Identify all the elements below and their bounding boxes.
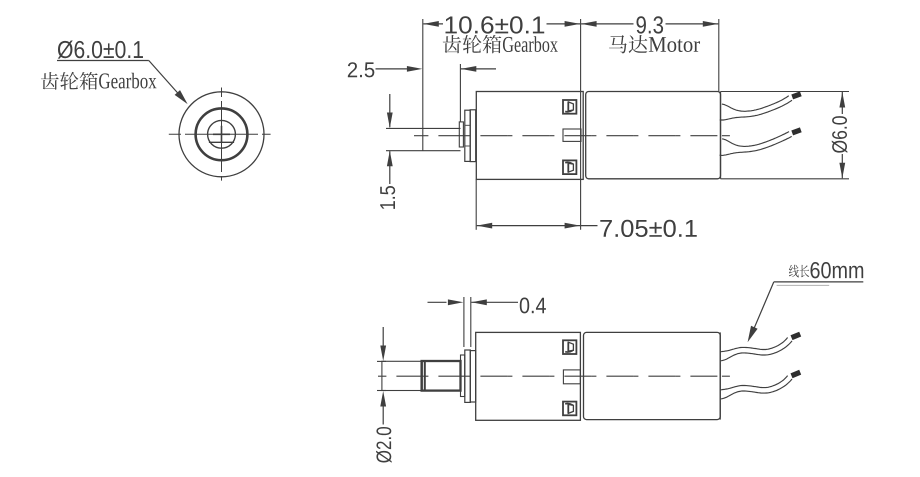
dim 2.5 right arrow tail	[461, 68, 496, 70]
dim dia2 ext lines	[377, 360, 386, 362]
dim text 1.5 rotated	[380, 186, 395, 209]
dim dia6 ext top	[721, 91, 850, 93]
front view label gearbox leader	[57, 60, 149, 62]
label wire length 60mm	[789, 265, 799, 278]
label wire length leader	[774, 281, 864, 283]
dim ext line between gearbox and motor x580.6	[580, 19, 582, 230]
motor body bottom view	[584, 332, 721, 419]
dim text 0.4	[520, 297, 529, 313]
dim 2.5 ext line at collar x460.4	[459, 64, 461, 122]
dim 10.6 line and arrows	[423, 23, 443, 25]
front view center mark cross	[213, 133, 230, 135]
motor right edge redraw bottom view	[719, 332, 721, 419]
top view centerline	[722, 135, 730, 137]
dim 2.5 line left with arrow	[376, 68, 408, 70]
screw symbol top view lower	[563, 160, 576, 174]
dim text 7.05	[600, 220, 612, 237]
bottom shaft threaded section M2	[422, 361, 461, 391]
middle tab between gearbox and motor top view	[563, 129, 581, 141]
motor wire top view lower	[722, 132, 789, 147]
bottom view centerline	[722, 375, 730, 377]
top shaft collar step	[459, 122, 463, 147]
front view centerline horizontal	[169, 133, 271, 135]
washer 2 bottom view	[470, 351, 475, 402]
screw symbol bottom view lower	[563, 402, 576, 416]
dim 10.6 extension line left at shaft tip x423	[422, 19, 424, 151]
dim 1.5 lower line arrow up	[389, 151, 391, 184]
dim 0.4 line arrows	[428, 301, 447, 303]
middle tab bottom view	[563, 370, 580, 384]
gearbox body top view	[476, 92, 583, 180]
dim text 9.3	[636, 16, 645, 33]
motor body top view	[586, 92, 721, 179]
dim 1.5 upper line arrow down	[389, 94, 391, 127]
washer 1 top view	[465, 110, 470, 161]
dim text dia2 rotated	[376, 427, 392, 463]
dim 7.05 line arrows	[477, 225, 580, 227]
front view middle circle	[196, 108, 248, 160]
dim dia6 vertical line arrows	[841, 92, 843, 114]
front view label dia 6.0	[58, 40, 73, 58]
front view inner circle shaft	[208, 120, 236, 148]
top shaft outline	[386, 127, 461, 129]
label motor Chinese	[609, 35, 627, 53]
screw symbol top view upper	[563, 100, 576, 114]
front view label text Chinese Gearbox	[41, 72, 59, 90]
gearbox body bottom view	[476, 332, 581, 420]
bottom shaft smooth section	[382, 361, 422, 390]
label gearbox Chinese top	[443, 35, 461, 53]
front view centerline vertical	[221, 88, 223, 181]
washer 2 top view	[470, 110, 476, 162]
dim text 2.5	[348, 62, 357, 77]
dim text dia6 rotated	[832, 116, 848, 153]
dim 9.3 line and arrows	[581, 23, 633, 25]
screw symbol bottom view upper	[563, 340, 576, 354]
bottom shaft collar	[461, 355, 465, 397]
washer 1 bottom view	[465, 350, 471, 402]
front view shaft flat chord	[209, 141, 234, 143]
dim 7.05 ext line at gearbox face x476	[475, 180, 477, 230]
dim ext line motor right x718.8	[718, 19, 720, 92]
front view outer circle gearbox body dia6	[179, 92, 264, 177]
motor wire bottom view upper	[720, 338, 788, 352]
motor right edge redraw top view	[720, 92, 722, 179]
motor wire bottom view lower	[720, 376, 788, 390]
dim dia6 ext bottom	[721, 178, 850, 180]
dim dia2 vertical arrows	[382, 327, 384, 357]
dim text 10.6	[445, 17, 456, 34]
motor wire top view upper	[722, 96, 789, 112]
dim 0.4 ext lines	[463, 297, 465, 347]
